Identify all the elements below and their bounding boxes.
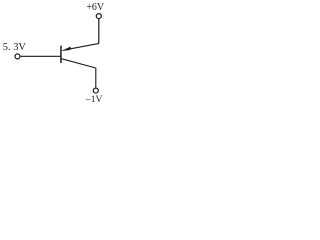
wire: emitter diagonal [67, 44, 99, 50]
terminal 5.3V (open circle) [15, 54, 20, 59]
terminal +6V (open circle) [96, 14, 101, 19]
svg-text:–1V: –1V [85, 94, 103, 105]
emitter arrowhead (points into base bar, PNP) [62, 47, 71, 51]
wire: +6V terminal down to emitter bend [98, 19, 99, 44]
background [0, 0, 115, 107]
wire: base lead [20, 55, 61, 57]
wire: collector diagonal [61, 59, 95, 88]
terminal -1V (open circle) [93, 88, 98, 93]
transistor Q1 base bar [60, 46, 62, 63]
svg-text:+6V: +6V [86, 2, 104, 13]
svg-text:5. 3V: 5. 3V [3, 42, 27, 53]
